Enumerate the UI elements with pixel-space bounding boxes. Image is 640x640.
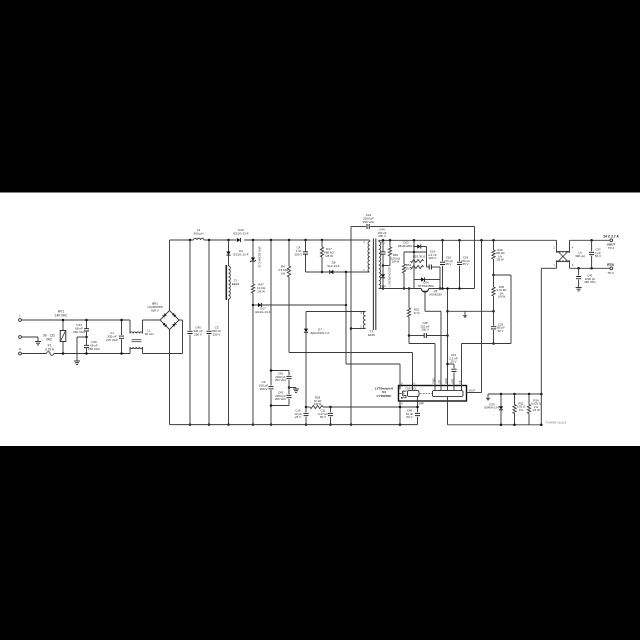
svg-text:25 V: 25 V <box>295 415 301 419</box>
wire VOUT riser <box>481 240 483 392</box>
resistor R24 sense <box>528 394 530 405</box>
op-amp U4 LYT6078C controller box <box>399 386 467 402</box>
svg-text:250 VAC: 250 VAC <box>73 330 86 334</box>
wire SR gate route <box>424 296 426 312</box>
capacitor C16 <box>442 240 444 261</box>
U4 pin BPS <box>453 386 455 391</box>
svg-text:AON6250: AON6250 <box>429 292 442 296</box>
terminal J1-earth <box>19 336 22 339</box>
resistor R52 <box>389 240 391 247</box>
wire N rail right <box>54 353 130 355</box>
svg-text:50 V: 50 V <box>498 329 504 333</box>
svg-text:1/8 W: 1/8 W <box>392 260 400 264</box>
fuse F1 <box>47 352 54 356</box>
wire RTN riser to shunt <box>540 268 542 425</box>
svg-text:LYT6078C: LYT6078C <box>377 394 392 398</box>
svg-text:200 V: 200 V <box>429 256 437 260</box>
resistor R29 upper divider <box>493 240 495 250</box>
svg-text:B340A-13-F: B340A-13-F <box>484 406 499 410</box>
svg-text:1%: 1% <box>281 271 286 275</box>
U4 pin SR <box>440 386 442 391</box>
svg-text:1%: 1% <box>519 408 524 412</box>
svg-text:25 V: 25 V <box>451 360 457 364</box>
wire C34-C35 midpoint to ground <box>77 336 87 338</box>
U4 pin GND <box>447 386 449 391</box>
wire L rail <box>22 319 130 321</box>
svg-text:250 VAC: 250 VAC <box>363 220 376 224</box>
U4 pin VOUT <box>467 392 482 394</box>
transformer T2 bias winding <box>363 312 365 329</box>
diode D16 <box>237 238 241 242</box>
wire Y-cap midpoint ground stub <box>289 387 296 389</box>
wire primary GND bus <box>170 424 418 426</box>
wire output RTN rail <box>541 267 556 269</box>
wire DC+ rail <box>170 239 194 241</box>
common-mode choke L1 <box>129 320 131 334</box>
capacitor C34 X-cap <box>86 320 88 329</box>
capacitor C14 <box>427 266 430 268</box>
diode D8 clamp <box>306 271 330 273</box>
capacitor C46 on BPP <box>417 401 419 412</box>
resistor R4 line sense <box>288 240 290 266</box>
transistor Q3 sync rectifier <box>421 289 428 293</box>
svg-text:1/8 W: 1/8 W <box>498 295 506 299</box>
capacitor C45 bulk <box>189 240 191 330</box>
resistor R47 <box>251 284 254 293</box>
svg-text:VOUT: VOUT <box>469 389 476 392</box>
svg-text:ES1G-13-F: ES1G-13-F <box>233 232 248 236</box>
ground earth-Ycaps <box>74 360 80 362</box>
wire secondary GND bus <box>447 401 449 425</box>
terminal J1-L line input <box>19 319 22 322</box>
capacitor C11 <box>329 406 332 409</box>
capacitor C43 Y-cap <box>288 386 291 389</box>
bridge rectifier BR1 <box>160 311 179 330</box>
diode D1 <box>228 240 230 252</box>
svg-text:D: D <box>401 382 403 385</box>
U4 pin FB <box>461 386 463 391</box>
resistor R22 <box>408 287 411 290</box>
diode D17 branch <box>252 304 255 307</box>
wire output + rail <box>570 239 610 241</box>
capacitor C48 <box>408 334 411 337</box>
ground earth-input <box>35 341 41 343</box>
svg-text:1/2 W: 1/2 W <box>532 408 540 412</box>
svg-text:24 V, 2.7 A: 24 V, 2.7 A <box>603 234 619 238</box>
resistor R53 <box>413 247 415 262</box>
capacitor C18 <box>459 240 461 261</box>
inductor L4 output choke <box>556 240 558 253</box>
wire C22 to secondary RTN <box>474 227 476 289</box>
wire V-pin route <box>289 352 413 354</box>
wire bridge+ riser <box>169 240 171 311</box>
svg-text:EF25: EF25 <box>368 333 375 337</box>
svg-text:FL1: FL1 <box>381 242 386 245</box>
svg-text:200 V: 200 V <box>421 328 429 332</box>
resistor R28 <box>306 406 310 408</box>
wire bias winding top <box>306 311 366 313</box>
svg-text:47 Ω: 47 Ω <box>413 311 420 315</box>
svg-text:250 VAC: 250 VAC <box>275 378 286 382</box>
wire secondary + rail <box>379 239 557 241</box>
diode D22 <box>382 264 385 267</box>
svg-text:VAC: VAC <box>46 337 53 341</box>
capacitor C10 <box>305 406 308 409</box>
capacitor C41 Y-cap output <box>578 268 580 275</box>
capacitor C44 <box>382 240 384 251</box>
svg-text:TP-2: TP-2 <box>608 246 615 250</box>
svg-text:ES1G-13-F: ES1G-13-F <box>233 253 248 257</box>
svg-text:ES1G-13-F: ES1G-13-F <box>255 310 270 314</box>
svg-text:STPS2150A: STPS2150A <box>418 284 434 288</box>
svg-text:35 V: 35 V <box>463 262 469 266</box>
capacitor C42 Y-cap <box>271 370 289 372</box>
diode D7 bias rectifier <box>305 312 307 329</box>
U4 internal dashed link <box>420 393 432 395</box>
svg-text:RTN: RTN <box>607 263 614 267</box>
U4 pin D <box>399 386 401 390</box>
svg-text:PI-8869-111119: PI-8869-111119 <box>546 421 567 425</box>
U4 pin V <box>412 386 414 391</box>
capacitor C4 clamp <box>305 240 307 252</box>
svg-text:BAV21WS-7-F: BAV21WS-7-F <box>311 331 330 335</box>
wire S pin to bus <box>399 401 401 425</box>
zener VR2 <box>252 240 254 258</box>
terminal RTN <box>610 267 613 270</box>
wire FB network box <box>494 274 512 276</box>
wire earth stub <box>22 336 38 338</box>
svg-text:35 V: 35 V <box>446 262 452 266</box>
capacitor C37 <box>591 240 593 251</box>
U4 pin FWD <box>434 386 436 391</box>
svg-text:140 VAC: 140 VAC <box>55 313 68 317</box>
svg-text:3.15 A: 3.15 A <box>45 347 55 351</box>
ground arrow shunt <box>487 394 489 398</box>
resistor R51 sense <box>514 394 516 405</box>
resistor R30 lower divider <box>492 274 495 277</box>
wire RTN rail <box>379 288 422 290</box>
svg-text:275 VAC: 275 VAC <box>106 338 119 342</box>
svg-text:250 V: 250 V <box>295 252 303 256</box>
capacitor C3 bulk <box>208 240 210 330</box>
U4 secondary block <box>433 391 464 397</box>
svg-text:600 V: 600 V <box>151 308 159 312</box>
svg-text:VR2 BZX84-C10: VR2 BZX84-C10 <box>258 247 262 268</box>
wire drain node to D pin <box>345 272 347 364</box>
svg-text:250 VAC: 250 VAC <box>88 347 101 351</box>
varistor RV1 <box>62 320 64 331</box>
wire bridge- to primary bus <box>169 330 171 425</box>
wire snubber top <box>404 251 427 253</box>
wire N rail left <box>22 353 47 355</box>
svg-text:50 V: 50 V <box>407 415 413 419</box>
capacitor C29 <box>493 311 495 325</box>
capacitor C1 across line <box>121 320 123 335</box>
wire choke to bridge top <box>143 319 161 321</box>
capacitor C6 bulk electrolytic <box>270 240 272 386</box>
diode D25 <box>500 394 502 406</box>
wire choke to bridge bottom <box>143 353 183 355</box>
svg-text:50 V: 50 V <box>595 254 601 258</box>
transformer T2 core <box>372 239 374 331</box>
capacitor C35 X-cap <box>84 344 89 346</box>
svg-text:250 V: 250 V <box>194 332 202 336</box>
wire bias winding bottom <box>351 328 366 330</box>
inductor L3 <box>194 238 205 240</box>
svg-text:18 mH: 18 mH <box>145 332 154 336</box>
svg-text:560 µH: 560 µH <box>194 232 204 236</box>
svg-text:BPP: BPP <box>419 403 424 406</box>
resistor R54 <box>402 264 405 273</box>
wire GND pin riser <box>447 289 449 386</box>
svg-text:250 V: 250 V <box>213 332 221 336</box>
svg-text:250 VAC: 250 VAC <box>584 280 595 284</box>
svg-text:DFLR1200-7: DFLR1200-7 <box>398 244 415 248</box>
svg-text:1/8 W: 1/8 W <box>496 258 504 262</box>
ground arrow secondary GND <box>464 311 466 315</box>
svg-text:250 VAC: 250 VAC <box>275 397 286 401</box>
resistor R17 clamp <box>321 240 323 247</box>
svg-text:50 V: 50 V <box>320 415 326 419</box>
wire FWD route <box>409 343 435 345</box>
capacitor C22 Y-cap <box>351 226 366 228</box>
capacitor C13 <box>448 363 455 365</box>
resistor R55 <box>413 261 415 267</box>
svg-text:SL2-13-F: SL2-13-F <box>327 264 340 268</box>
svg-text:D22 DFLR1200-7: D22 DFLR1200-7 <box>388 267 391 287</box>
wire secondary GND node <box>448 310 494 312</box>
terminal J1-N neutral <box>19 352 22 355</box>
ground earth-C41 <box>576 287 582 289</box>
filter inductor T1 EE19 winding <box>229 266 231 299</box>
svg-text:N: N <box>19 347 21 351</box>
svg-text:TP-3: TP-3 <box>607 271 614 275</box>
transformer T2 primary winding <box>368 242 370 273</box>
svg-text:1/8 W: 1/8 W <box>257 289 265 293</box>
U4 internal MOSFET <box>399 390 407 398</box>
diode D23 snubber <box>413 240 415 246</box>
svg-text:200 V: 200 V <box>378 234 386 238</box>
wire primary GND rail <box>350 227 352 425</box>
terminal VOUT 24V <box>610 239 613 242</box>
svg-text:EE19: EE19 <box>232 282 240 286</box>
svg-text:R53 30 Ω: R53 30 Ω <box>413 255 426 259</box>
ground earth-C42C43 <box>295 388 297 389</box>
transformer T2 secondary winding <box>379 242 381 289</box>
svg-text:250 V: 250 V <box>260 387 268 391</box>
diode D24 <box>413 267 415 280</box>
U4 pin BPP <box>417 397 419 402</box>
svg-text:1/8 W: 1/8 W <box>314 402 322 406</box>
svg-text:1/8 W: 1/8 W <box>325 254 333 258</box>
svg-text:390 µH: 390 µH <box>575 254 584 258</box>
wire shunt top bus <box>488 393 541 395</box>
